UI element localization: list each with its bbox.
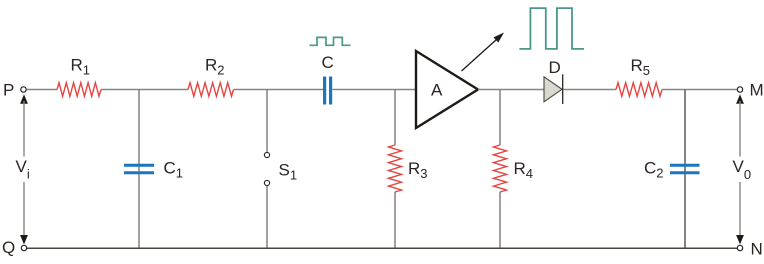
wire R5 to M bbox=[662, 89, 737, 91]
svg-text:R2: R2 bbox=[205, 55, 225, 77]
op-amp U1 (amplifier A) bbox=[416, 51, 478, 128]
switch S1 bbox=[264, 90, 297, 249]
svg-text:C2: C2 bbox=[644, 159, 664, 181]
resistor R4 bbox=[494, 90, 534, 249]
bottom rail wire Q to N bbox=[27, 247, 738, 249]
wire op-amp to diode bbox=[478, 89, 544, 91]
svg-text:S1: S1 bbox=[279, 161, 298, 183]
svg-text:V0: V0 bbox=[733, 157, 752, 182]
svg-text:R4: R4 bbox=[514, 159, 534, 181]
wire C to op-amp bbox=[333, 89, 417, 91]
svg-text:Vi: Vi bbox=[16, 157, 30, 182]
svg-text:N: N bbox=[751, 240, 763, 259]
svg-text:C1: C1 bbox=[164, 159, 184, 181]
resistor R2 bbox=[188, 55, 234, 96]
wire P to R1 bbox=[27, 89, 58, 91]
terminal Q bbox=[2, 238, 27, 257]
Vo measurement arrow line bbox=[736, 94, 744, 244]
wire C2 branch bbox=[684, 90, 686, 249]
svg-text:C: C bbox=[322, 53, 334, 72]
wire diode to R5 bbox=[563, 89, 616, 91]
svg-text:M: M bbox=[750, 81, 764, 100]
terminal N bbox=[737, 240, 762, 259]
terminal M bbox=[737, 81, 763, 100]
wire R2 to capacitor C bbox=[234, 89, 324, 91]
resistor R3 bbox=[389, 90, 428, 249]
svg-text:R3: R3 bbox=[408, 159, 428, 181]
Vi measurement arrow line bbox=[20, 94, 28, 244]
resistor R5 bbox=[616, 56, 662, 97]
svg-text:D: D bbox=[549, 58, 561, 77]
gain arrow on amplifier bbox=[462, 33, 505, 72]
capacitor C2 bbox=[644, 159, 700, 181]
svg-text:P: P bbox=[3, 81, 14, 100]
svg-text:Q: Q bbox=[2, 238, 15, 257]
output waveform (large square wave) bbox=[519, 8, 584, 49]
input waveform (small square wave) bbox=[310, 37, 351, 45]
svg-text:R1: R1 bbox=[71, 55, 91, 77]
svg-text:R5: R5 bbox=[631, 56, 651, 78]
capacitor C1 bbox=[124, 159, 183, 181]
terminal P bbox=[3, 81, 26, 100]
wire R1 to R2 bbox=[101, 89, 188, 91]
capacitor C bbox=[322, 53, 334, 105]
diode D bbox=[544, 58, 563, 104]
resistor R1 bbox=[57, 55, 101, 96]
wire C1 branch bbox=[138, 90, 140, 249]
svg-text:A: A bbox=[431, 81, 443, 100]
